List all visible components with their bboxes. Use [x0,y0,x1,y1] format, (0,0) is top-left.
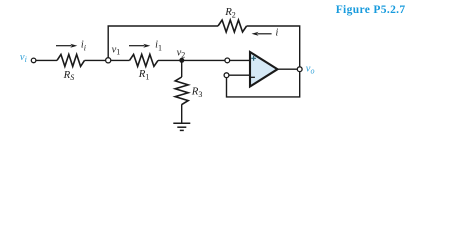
resistor R3 [175,77,188,105]
wire: v2 down to R3 [181,60,183,77]
op-amp + input circle [225,58,230,63]
wire: RS to node v1 [85,59,106,61]
op-amp minus sign [250,76,255,78]
resistor R2 [218,20,247,32]
wire: R2 to output node [247,26,300,67]
wire: R3 to ground [181,104,183,123]
wire: R1 to node v2 [158,59,182,61]
ground [173,122,190,124]
terminal vi (open circle) [31,58,36,63]
wire: input lead from vi terminal to RS [36,59,57,61]
node v1 (open circle) [106,58,111,63]
resistor R1 [130,54,159,66]
op-amp - input circle [224,73,229,78]
wire: v1 to R1 [111,59,130,61]
svg-text:Figure P5.2.7: Figure P5.2.7 [336,4,406,16]
svg-text:i: i [276,27,279,38]
op-amp plus sign [251,56,256,61]
wire: - circle to op-amp [229,74,250,76]
node v2 (filled dot) [179,58,184,63]
arrow i1 [129,45,145,47]
wire: op-amp output [278,68,298,70]
arrow ii [56,45,72,47]
wire: feedback from - input down and around to output [227,72,300,97]
wire: + circle to op-amp [230,59,250,61]
wire: feedback up from v1 [108,26,218,58]
resistor RS [57,54,85,66]
terminal vo (open circle) [297,67,302,72]
op-amp U1 [250,52,278,87]
arrow i (top, pointing left) [257,33,271,35]
wire: v2 to op-amp + input circle [182,59,225,61]
